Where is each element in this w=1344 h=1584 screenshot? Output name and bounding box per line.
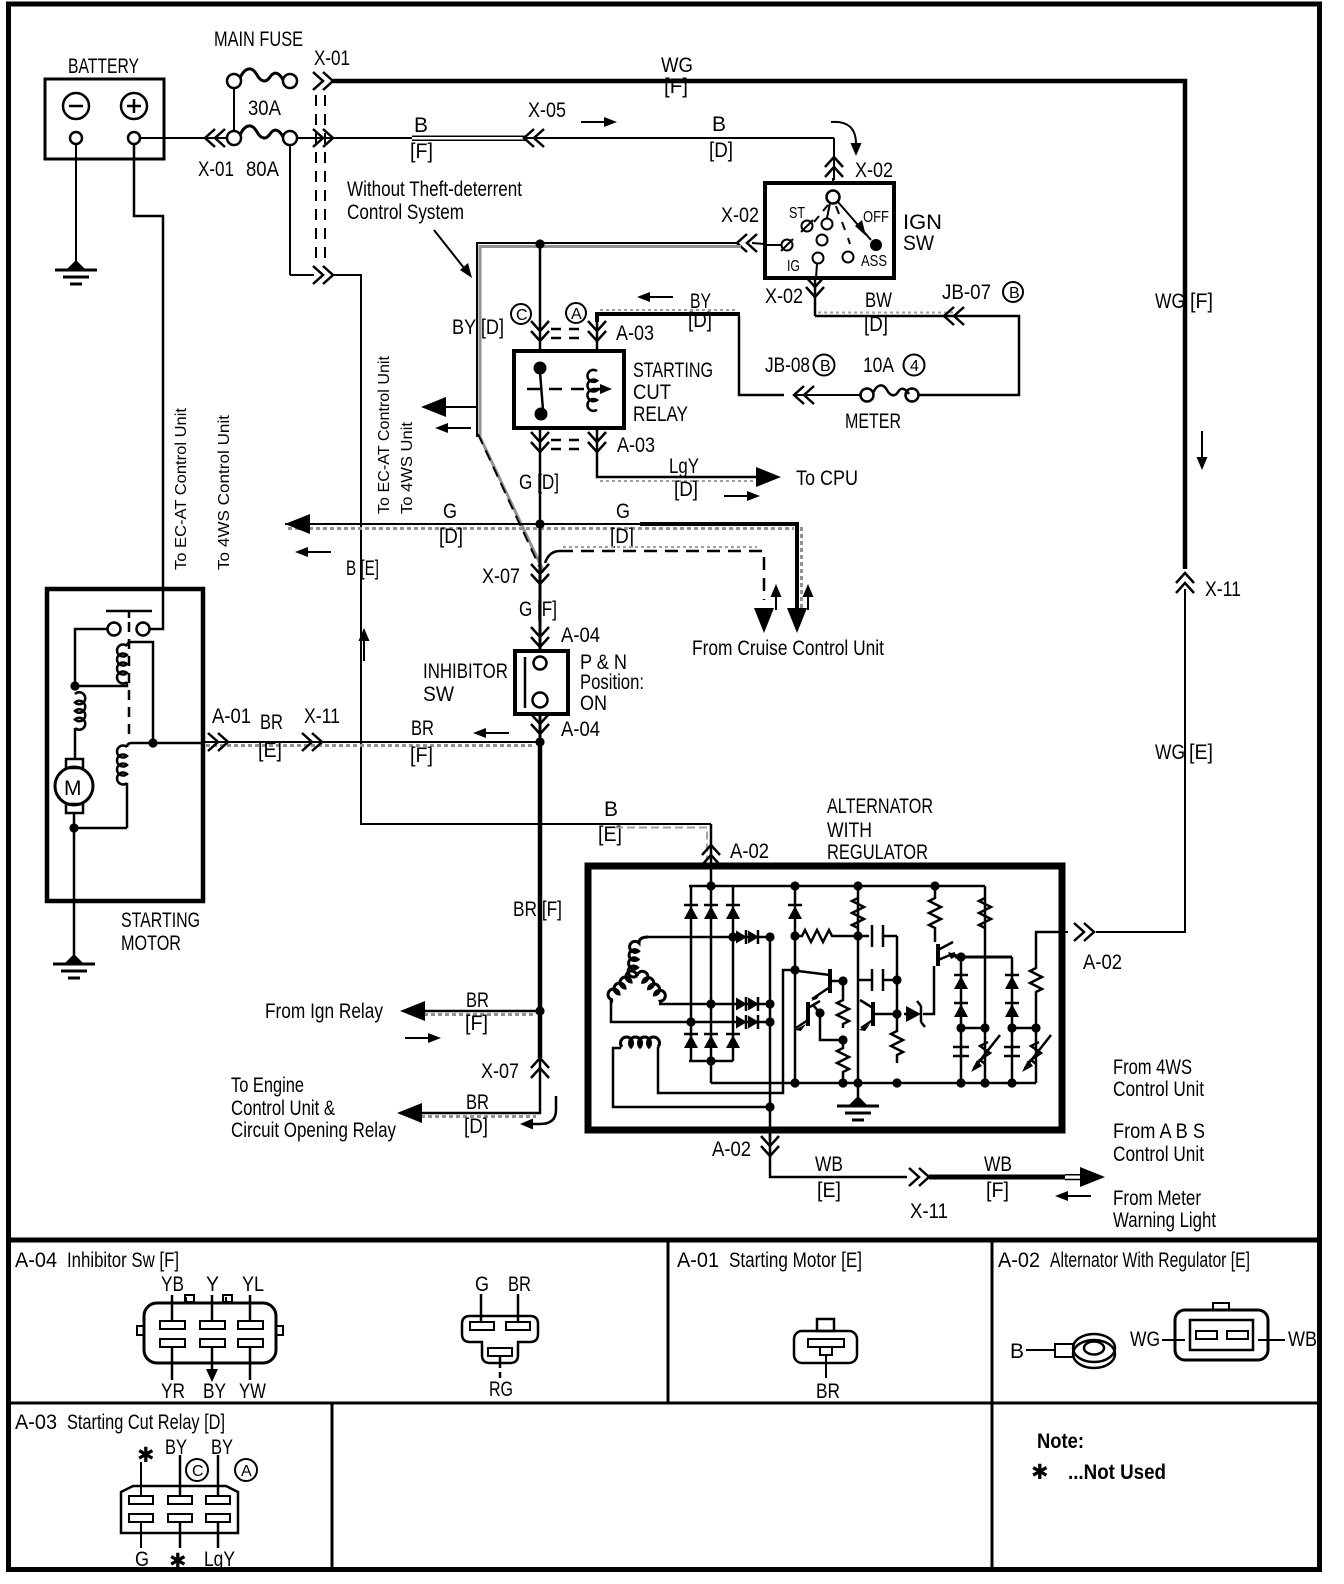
svg-text:BR: BR [466,989,489,1012]
svg-text:[F]: [F] [664,75,688,98]
svg-text:M: M [64,777,82,800]
wire B [F] from 80A fuse [297,114,834,163]
svg-text:Position:: Position: [580,671,644,694]
svg-text:STARTING: STARTING [633,359,713,382]
svg-text:[F]: [F] [986,1179,1009,1202]
svg-text:✱: ✱ [137,1444,155,1467]
svg-text:A-02Alternator With Regulator: A-02Alternator With Regulator [E] [998,1249,1250,1272]
svg-text:A-02: A-02 [1083,951,1122,974]
wire B [E] label [598,798,707,860]
diode stack D2 [1004,957,1020,1083]
arrow flow (B up) [363,640,365,661]
svg-text:IG: IG [787,258,800,275]
svg-text:YW: YW [239,1380,266,1403]
svg-text:30A: 30A [248,97,281,120]
svg-text:Control Unit: Control Unit [1113,1078,1204,1101]
svg-text:[D]: [D] [674,478,698,501]
connector X-02 chevron (bottom) [806,277,824,297]
alternator with regulator label [827,795,933,864]
svg-text:[F]: [F] [410,744,433,767]
connector X-01 chevron (battery side) [205,129,225,147]
svg-text:Y: Y [206,1273,219,1296]
connector A-03 chevrons (lower) [531,432,655,457]
svg-text:SW: SW [903,232,934,255]
pin BY [211,1347,214,1370]
arrow flow (right small) [724,491,760,501]
svg-text:From Meter: From Meter [1113,1187,1201,1210]
label to EC-AT/4WS control units (vertical) [173,407,233,570]
trio output vertical [769,937,772,1140]
svg-text:[F]: [F] [465,1012,488,1035]
zener diode Z1 [897,966,934,1027]
alternator box [588,866,1062,1130]
diode stack D1 [953,957,969,1083]
svg-text:G: G [616,500,630,523]
svg-text:[D]: [D] [709,139,733,162]
svg-text:BY: BY [165,1436,187,1459]
stator phase V wire [659,997,775,1011]
svg-text:WB: WB [815,1153,843,1176]
svg-text:A-03: A-03 [617,434,655,457]
arrow flow (left small) [1055,1191,1091,1201]
svg-text:BR [F]: BR [F] [513,898,562,921]
svg-text:METER: METER [845,410,901,433]
pin BY C [179,1455,182,1496]
svg-text:JB-08: JB-08 [765,354,810,377]
rectifier bottom bus [689,1061,733,1083]
svg-text:A-02: A-02 [730,840,769,863]
svg-text:G [F]: G [F] [519,598,557,621]
svg-text:C: C [516,307,528,324]
wire WB [F] to meter [929,1153,1081,1202]
svg-text:B: B [414,114,428,137]
solenoid hold-in coil [117,743,203,828]
label from 4WS control unit [1113,1056,1204,1101]
terminal B circle (JB-08) [814,355,835,376]
thermistor TH1 [974,1035,1000,1068]
wire B [D] to ignition switch [709,113,834,180]
svg-text:✱: ✱ [169,1550,187,1573]
svg-text:G: G [443,500,457,523]
svg-text:4: 4 [910,358,919,375]
wire WG [E] to alternator [1096,589,1213,932]
junction A-01 out [148,738,157,747]
wire LgY [D] to CPU [597,428,756,501]
svg-text:OFF: OFF [863,209,889,226]
wire G [D] bus [285,500,802,610]
wire branch to EC-AT (from BY) [446,406,477,408]
connector A-04 face [137,1295,283,1363]
svg-text:ON: ON [580,692,607,715]
connector X-11 chevron (BR) [302,733,322,751]
pin YB [171,1295,174,1321]
svg-text:YB: YB [161,1273,184,1296]
svg-text:C: C [192,1463,204,1480]
stator windings [608,937,665,1003]
svg-text:X-01: X-01 [198,158,234,181]
svg-text:X-11: X-11 [910,1200,948,1223]
svg-text:YR: YR [161,1380,185,1403]
svg-text:[D]: [D] [610,525,634,548]
connector 3P face [462,1316,538,1363]
starting motor [47,589,203,955]
svg-text:Warning Light: Warning Light [1113,1209,1216,1232]
wire battery minus to ground [75,144,77,266]
svg-text:B: B [604,798,618,821]
svg-text:A-01: A-01 [212,705,251,728]
arrow from cruise (G wire) [795,610,799,612]
transistor Q3 [859,1000,897,1031]
rail R3 [961,886,991,1083]
svg-text:From 4WS: From 4WS [1113,1056,1192,1079]
starting motor solenoid contacts [106,611,152,740]
pin not-used top [140,1462,142,1496]
svg-text:A-01Starting Motor [E]: A-01Starting Motor [E] [677,1249,862,1272]
svg-text:B: B [1010,1340,1024,1363]
svg-text:A: A [571,306,582,323]
wire fuse link 30A-80A [233,88,235,131]
wire battery feed into motor [134,144,163,629]
pin RG [499,1356,502,1378]
svg-text:Control Unit: Control Unit [1113,1143,1204,1166]
motor M [55,759,93,813]
arrow from ign relay [400,1001,425,1021]
node A (panel) [235,1459,257,1481]
junction motor field [70,681,79,690]
junction field/WB [765,1102,774,1111]
svg-text:B: B [1009,285,1020,302]
svg-text:WG: WG [661,54,693,77]
inhibitor switch [423,651,644,715]
wire BR [F] thick down [513,742,562,1011]
svg-text:B [E]: B [E] [346,557,379,580]
arrow flow (BY left) [637,292,673,302]
junction BY/relay [535,239,544,248]
pin YW [249,1347,252,1380]
svg-text:INHIBITOR: INHIBITOR [423,660,508,683]
svg-text:WG: WG [1155,290,1185,313]
svg-text:LgY: LgY [204,1548,235,1571]
arrow flow (B right) [581,117,617,127]
svg-text:ASS: ASS [861,253,887,270]
svg-text:WB: WB [1288,1328,1317,1351]
svg-text:A-03Starting Cut Relay [D]: A-03Starting Cut Relay [D] [15,1411,225,1434]
wire B down branch (to theft-deterrent split) [290,145,314,275]
svg-text:[E]: [E] [258,739,282,762]
svg-text:X-01: X-01 [314,47,350,70]
fuse METER 10A [845,354,919,433]
top bus [689,885,985,888]
rectifier column 2 [704,886,718,1061]
middle rail [852,886,864,1083]
svg-text:Control Unit &: Control Unit & [231,1097,335,1120]
connector A-03 chevrons (upper) [531,321,654,345]
junction R5 [838,1035,847,1044]
svg-text:X-02: X-02 [721,204,759,227]
terminal B circle (JB-07) [1003,282,1023,302]
svg-text:LgY: LgY [669,455,699,478]
svg-text:10A: 10A [863,354,894,377]
svg-text:[F]: [F] [410,140,433,163]
arrow flow up pair [775,595,777,610]
arrow to EC-AT [421,397,446,417]
svg-text:[D]: [D] [688,309,712,332]
fuse 30A [227,69,297,120]
svg-text:✱: ✱ [1031,1461,1049,1484]
junction G bus [535,519,544,528]
junction BR ign relay [535,1006,544,1015]
regulator rail left [788,886,802,1083]
svg-text:G: G [135,1548,149,1571]
svg-text:From Cruise Control Unit: From Cruise Control Unit [692,637,884,660]
output node bus [955,956,1012,959]
svg-text:X-02: X-02 [765,285,803,308]
svg-text:From A B S: From A B S [1113,1120,1205,1143]
svg-text:A-02: A-02 [712,1138,751,1161]
wire BW [D] to JB-07 [815,289,1019,395]
svg-text:ALTERNATOR: ALTERNATOR [827,795,933,818]
ign switch IGN SW [765,178,942,278]
stator phase U wire [648,930,775,944]
svg-text:Control System: Control System [347,201,464,224]
rotor field coil [613,970,795,1107]
svg-text:G [D]: G [D] [519,471,559,494]
svg-text:X-02: X-02 [855,159,893,182]
connector X-11 chevron (WG) [1176,573,1194,593]
connector A-02 chevron (B) [702,845,720,865]
connector A-01 face [794,1319,857,1378]
wire G [D] relay to bus [519,428,559,524]
resistor R6 vertical [891,1014,903,1063]
arrow flow (hook into X-02) [831,122,856,144]
svg-text:B: B [820,358,831,375]
arrow from cruise (dashed wire) [754,608,774,633]
svg-text:A-04: A-04 [561,718,600,741]
connector A-03 face [121,1486,238,1533]
pin YL [249,1295,252,1321]
svg-text:[F]: [F] [1190,290,1213,313]
connector X-07 chevron [531,564,549,584]
arrow flow (WG down) [1201,431,1203,458]
wire G [F] to inhibitor [519,584,557,651]
svg-text:BR: BR [411,717,434,740]
pin Y [211,1295,214,1321]
pin G [480,1294,483,1322]
ground (starting motor) [53,954,95,978]
svg-text:BY: BY [203,1380,226,1403]
wire relay pin A upper [596,322,599,351]
svg-text:X-05: X-05 [528,99,566,122]
rectifier column 3 [726,886,740,1061]
resistor R2 + transistor Q4 [929,886,961,966]
arrow flow (right small) [405,1033,441,1043]
svg-text:A-03: A-03 [616,322,654,345]
svg-text:To Engine: To Engine [231,1074,304,1097]
pin YR [171,1347,174,1380]
arrow flow (left small) [435,423,471,433]
svg-text:YL: YL [242,1273,264,1296]
svg-text:B: B [712,113,726,136]
wire WG [F] main feed [333,54,1213,569]
svg-text:80A: 80A [246,158,279,181]
arrow G to EC-AT/4WS [285,514,310,534]
wire relay pin C upper [539,244,542,351]
junction motor bottom [69,823,78,832]
label to EC-AT/4WS unit (vertical) [376,355,416,514]
wire inhibitor to BR junction [539,714,542,742]
svg-text:[D]: [D] [439,525,463,548]
svg-text:A-04Inhibitor Sw [F]: A-04Inhibitor Sw [F] [15,1249,179,1272]
connector A-04 chevron (bottom) [531,714,549,734]
pin G bottom [140,1522,142,1548]
transistor Q2 [795,1001,843,1040]
terminal 4 circle (fuse) [904,355,925,376]
motor field coil [75,692,85,759]
svg-text:X-11: X-11 [304,705,340,728]
connector A-02 chevron (WG out) [1074,923,1094,941]
wire BY [D] dashed to cruise [545,547,764,600]
connector X-01 chevrons (harness side) [313,47,350,284]
wire B into alternator [710,824,713,886]
connector X-02 chevron (left) [737,234,757,252]
starting cut relay [514,351,713,428]
svg-text:IGN: IGN [903,211,942,234]
svg-text:[E]: [E] [1189,741,1213,764]
wire WB out of alternator [770,1130,907,1177]
svg-text:Note:: Note: [1037,1430,1084,1453]
svg-text:BR: BR [508,1273,531,1296]
svg-text:To CPU: To CPU [796,467,858,490]
solenoid pull-in coil [75,642,153,742]
pin B ring terminal [1010,1334,1115,1368]
node C (panel) [186,1459,208,1481]
regulator bottom rail [711,1078,1036,1087]
svg-text:BW: BW [865,289,892,312]
svg-text:Without Theft-deterrent: Without Theft-deterrent [347,178,522,201]
wire fuse to JB-08 [794,394,860,396]
wire battery plus to fuse [140,137,228,139]
svg-text:[D]: [D] [464,1115,488,1138]
wire BR to X-07 lower [538,1011,543,1058]
junction BR / A-04 [535,737,544,746]
ground (regulator) [837,1078,879,1120]
svg-text:CUT: CUT [633,381,671,404]
connector X-05 chevron [524,129,544,147]
svg-text:[D]: [D] [864,313,888,336]
svg-text:X-11: X-11 [1205,578,1241,601]
svg-text:WB: WB [984,1153,1012,1176]
svg-text:MAIN FUSE: MAIN FUSE [214,28,303,51]
node A (relay pin) [566,303,586,323]
svg-text:A-04: A-04 [561,624,600,647]
arrow To CPU [756,467,781,487]
gray highlight theft path [480,247,741,571]
svg-text:X-07: X-07 [481,1060,519,1083]
svg-text:RELAY: RELAY [633,403,688,426]
connector X-07 chevron (lower) [531,1058,549,1078]
wire BR [D] to engine control unit [418,1077,540,1138]
svg-text:WG: WG [1130,1328,1160,1351]
wire B [E] vertical long [333,275,711,824]
wire from ign relay [265,989,540,1035]
node C (relay pin) [511,304,531,324]
wire BY [D] diagonal to X-07 [478,434,541,570]
svg-text:[E]: [E] [817,1179,841,1202]
connector A-02 face [1130,1303,1317,1360]
svg-text:WITH: WITH [827,819,872,842]
svg-text:X-07: X-07 [482,565,520,588]
wire BY to starting cut relay [597,290,784,395]
wire IG to X-02 (BY [D] feed) [477,204,765,437]
svg-text:WG: WG [1155,741,1185,764]
arrow flow (left at A-04) [473,728,509,738]
wire BR [E]/[F] to starting motor [204,705,538,767]
resistor R1 horizontal [795,930,869,942]
svg-text:From Ign Relay: From Ign Relay [265,1000,383,1023]
svg-text:BY [D]: BY [D] [452,316,504,339]
pin BY A [217,1455,220,1496]
svg-text:MOTOR: MOTOR [121,932,181,955]
svg-text:To 4WS Control Unit: To 4WS Control Unit [216,414,233,570]
svg-text:SW: SW [423,683,454,706]
connector X-02 chevron (top) [825,157,843,177]
svg-text:JB-07: JB-07 [942,281,991,304]
connector JB-08 chevron [794,386,814,404]
connector A-02 chevron (WB) [761,1136,779,1156]
svg-text:BY: BY [211,1436,233,1459]
wire X-02 to BW [814,278,817,316]
battery [45,55,164,159]
junction zener [892,1009,901,1018]
svg-text:[E]: [E] [598,823,622,846]
arrow to meter warning light [1080,1167,1105,1187]
thermistor TH2 [1025,1035,1051,1068]
svg-text:G: G [475,1273,489,1296]
svg-text:ST: ST [789,205,805,222]
arrow to engine control unit [397,1103,422,1123]
note [1031,1430,1166,1484]
label to engine control unit [231,1074,396,1142]
svg-text:RG: RG [489,1378,513,1401]
svg-text:BR: BR [816,1380,840,1403]
connector JB-07 chevron [944,307,964,325]
wire WB [E] [815,1153,843,1202]
panel grid [8,1240,1320,1568]
arrow flow (left small under bus) [295,547,331,557]
connector A-01 chevron [208,733,228,751]
fuse 80A [227,126,297,181]
svg-text:REGULATOR: REGULATOR [827,841,928,864]
connector X-11 chevron (WB) [909,1168,929,1186]
transistor Q1 [798,969,848,1001]
pin BR [517,1294,520,1322]
wire motor to ground [73,813,76,960]
pin LgY bottom [217,1522,220,1548]
wire G vertical to X-07 [482,524,540,588]
svg-text:...Not Used: ...Not Used [1068,1461,1166,1484]
capacitor C1 [872,925,897,980]
note without theft-deterrent [347,178,522,278]
svg-text:BR: BR [466,1091,489,1114]
resistor R5a vertical [837,998,849,1028]
svg-text:STARTING: STARTING [121,909,200,932]
svg-text:Circuit Opening Relay: Circuit Opening Relay [231,1119,396,1142]
stator phase W wire [611,999,775,1029]
wire hold-in coil return [74,827,127,830]
svg-text:BR: BR [260,711,283,734]
svg-text:To EC-AT Control Unit: To EC-AT Control Unit [173,407,190,570]
label from ABS control unit [1113,1120,1205,1166]
